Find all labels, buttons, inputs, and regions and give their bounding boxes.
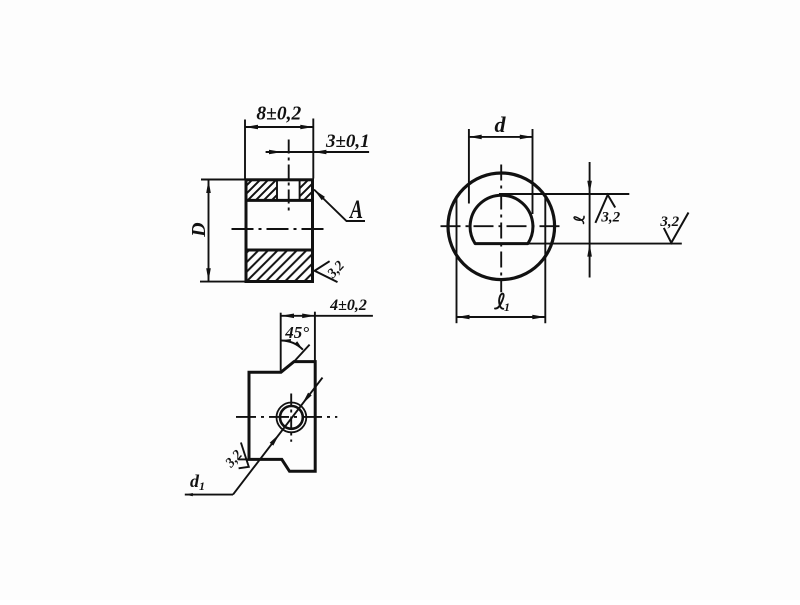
svg-text:D: D <box>188 222 210 237</box>
svg-text:3±0,1: 3±0,1 <box>325 131 370 152</box>
svg-text:A: A <box>349 195 363 224</box>
svg-text:4±0,2: 4±0,2 <box>329 297 367 314</box>
svg-text:8±0,2: 8±0,2 <box>256 104 301 125</box>
svg-text:3,2: 3,2 <box>659 214 679 230</box>
svg-text:45°: 45° <box>284 323 309 342</box>
svg-text:d: d <box>495 112 507 137</box>
svg-text:3,2: 3,2 <box>600 210 620 226</box>
svg-text:1: 1 <box>504 300 510 314</box>
